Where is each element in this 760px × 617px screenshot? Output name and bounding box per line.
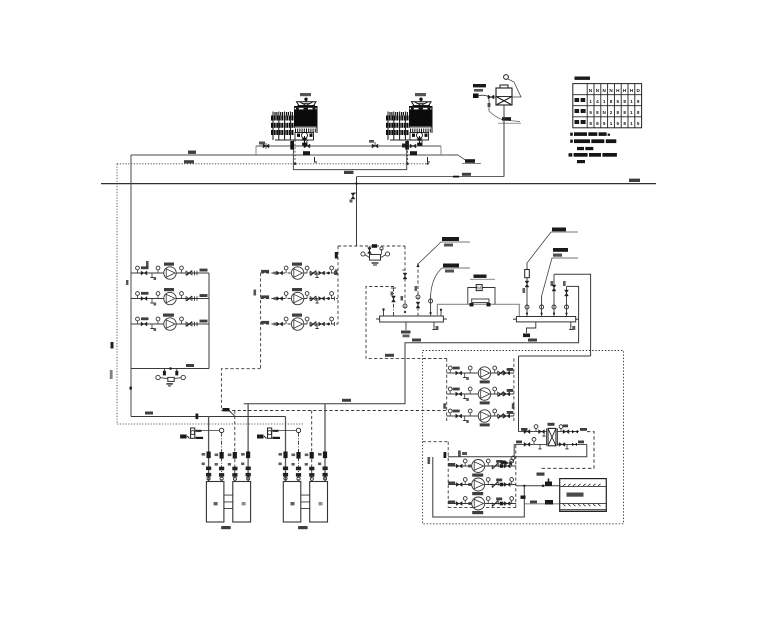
pump labels group1 (163, 263, 174, 317)
pipe: dotted equalizer line (117, 163, 430, 165)
valves right of HX top (559, 425, 587, 434)
pipe: tank lower suction line (524, 500, 559, 505)
svg-text:2: 2 (610, 110, 613, 115)
pump CH-P3 row dashed (261, 317, 338, 330)
svg-text:5: 5 (589, 110, 592, 115)
pipe: cooling supply line to chillers (131, 412, 286, 420)
svg-text:8: 8 (596, 121, 599, 126)
svg-text:8: 8 (589, 121, 592, 126)
label on return line (188, 151, 196, 154)
svg-text:1: 1 (630, 110, 633, 115)
pipe: group2 elbow to chiller chilled line (221, 369, 260, 411)
chiller unit 1 risers (209, 404, 249, 482)
chiller unit 2 risers (286, 404, 326, 482)
notes text lines (569, 132, 617, 163)
left header (supply manifold) (376, 316, 447, 322)
label on chiller supply line (342, 339, 421, 402)
pipe: group2 left dashed vertical (260, 273, 262, 369)
expansion make-up assembly (361, 246, 390, 265)
pipe: dashed chilled line to chillers (221, 410, 446, 412)
strainer bypass assembly (130, 367, 186, 389)
label main line (629, 179, 640, 182)
pump XP-3 row (448, 497, 516, 515)
node ticks group3 (443, 403, 514, 409)
svg-text:1: 1 (610, 121, 613, 126)
pipe: long dotted expansion line (117, 423, 303, 425)
valve on gray line 2 (304, 144, 310, 148)
riser 1 on left header (382, 308, 384, 316)
water treatment unit (softener) (473, 75, 521, 124)
label GGP (521, 473, 545, 499)
svg-text:8: 8 (617, 110, 620, 115)
pipe: HX return U (514, 444, 587, 456)
pump CH-P2 row dashed (261, 292, 338, 305)
pump PB-3 row (131, 317, 209, 331)
pipe: main bottom header line (101, 183, 656, 185)
label on left vertical (110, 342, 114, 379)
right header (return manifold) (513, 317, 579, 322)
pipe: CT-2 overflow dashed drain (407, 140, 409, 163)
right system dotted enclosure (423, 351, 624, 524)
svg-text:8: 8 (623, 121, 626, 126)
riser 3 gauge (401, 296, 404, 301)
heat exchanger HX (547, 423, 558, 446)
label at dashed junction (223, 408, 235, 416)
pipe: tank loop bottom (433, 457, 526, 517)
label on make-up line (462, 173, 471, 176)
riser D on right header (563, 281, 569, 317)
pump labels group2 (292, 263, 302, 317)
gauge on dashed riser (403, 304, 407, 313)
cooling tower CT-1 (271, 93, 317, 150)
valve on gray line 1 (259, 142, 269, 150)
riser 4 on left header with leader to label (415, 237, 471, 316)
pipe: return line to group4 (444, 451, 515, 459)
pipe: tower common bottom U line (293, 140, 406, 170)
pipe: riser C elbow to box supply (554, 274, 591, 356)
pump XP-1 row (448, 459, 516, 477)
differential pressure bypass valve assembly (468, 275, 495, 307)
riser 5 on left header with curved leader (429, 264, 470, 317)
chiller LSB-1 (202, 452, 251, 530)
svg-text:5: 5 (637, 121, 640, 126)
riser B on right header with leader (540, 248, 578, 317)
data table title (575, 77, 591, 80)
hook symbol right (427, 157, 431, 165)
svg-text:4: 4 (596, 99, 599, 104)
pipe: condenser supply gray line (256, 146, 441, 155)
pump XH-P1 row (447, 366, 514, 383)
pump PB-1 row (131, 266, 209, 280)
hook symbol mid (315, 157, 318, 162)
label below U line (344, 171, 354, 174)
svg-text:1: 1 (630, 121, 633, 126)
svg-text:8: 8 (623, 110, 626, 115)
pipe: left solid vertical (130, 155, 132, 417)
svg-text:1: 1 (603, 99, 606, 104)
cooling tower CT-2 (386, 93, 432, 150)
riser A on right header (to box via 590) (523, 228, 579, 317)
pipe: cross-over line between headers (437, 304, 519, 316)
pipe: dashed riser to left header (404, 246, 406, 313)
pipe: condenser return solid line (131, 154, 441, 156)
pipe: dashed chilled-return path left (366, 287, 447, 359)
drain below left header (401, 322, 411, 337)
pipe: left dotted vertical (116, 164, 118, 424)
pump XH-P3 row (447, 409, 514, 426)
valve on gray line 3 (369, 140, 378, 148)
pipe: softener down pipe (503, 105, 505, 177)
svg-text:1: 1 (630, 99, 633, 104)
air vent cluster (501, 456, 515, 465)
valve on dashed riser (402, 270, 407, 279)
valve on gray line 4 (402, 144, 416, 149)
pipe: right header riser D elbow to down line (244, 286, 579, 403)
drain valve right below left header (432, 322, 438, 330)
node tower2 drain junction (406, 163, 408, 165)
pump CH-P1 row dashed (261, 266, 338, 279)
svg-text:8: 8 (596, 110, 599, 115)
svg-text:8: 8 (610, 99, 613, 104)
label on dashed path (385, 354, 394, 357)
pipe: make-up riser to expansion assembly (355, 177, 357, 246)
pump XH-P2 row (447, 387, 514, 404)
pipe: box top supply line (519, 355, 591, 357)
pipe: HX lower line (514, 443, 587, 445)
riser C on right header (551, 274, 557, 316)
data table (573, 84, 642, 128)
pipe: group3 dashed enclosure (423, 358, 514, 421)
label tick in box left (428, 457, 431, 464)
riser 6 on left header (440, 309, 442, 316)
pipe: group2 right dashed vertical (335, 246, 338, 324)
svg-text:9: 9 (637, 99, 640, 104)
label on dotted line (184, 160, 194, 163)
svg-text:8: 8 (637, 110, 640, 115)
label between group2 rows (254, 290, 257, 296)
svg-text:5: 5 (617, 99, 620, 104)
riser 2 on left header (391, 288, 397, 316)
pump XP-2 row (448, 478, 516, 496)
storage tank (560, 479, 607, 512)
instrument chiller 2 (257, 428, 296, 439)
pipe: box left down pipe (518, 356, 520, 432)
pipe: HX top dashed continuation (541, 432, 594, 469)
drain valve right below right header (569, 322, 575, 330)
valve tower1 outlet (303, 151, 310, 155)
svg-text:8: 8 (623, 99, 626, 104)
pipe: make-up water line (357, 176, 505, 178)
svg-text:5: 5 (603, 121, 606, 126)
svg-text:1: 1 (589, 99, 592, 104)
pipe: group4 discharge to tank upper (516, 479, 560, 488)
instrument chiller 1 (180, 428, 219, 439)
svg-text:5: 5 (617, 121, 620, 126)
pump PB-2 row (131, 292, 209, 306)
pipe: CT-1 overflow dashed drain (294, 140, 296, 163)
pipe: group1 bottom line (131, 364, 209, 369)
valve on make-up riser (350, 193, 357, 203)
valve tower2 outlet (410, 151, 417, 155)
node tower1 drain junction (294, 163, 296, 165)
valves on HX top line (521, 425, 546, 436)
valves on HX lower line (516, 438, 584, 449)
svg-text:M: M (477, 286, 481, 291)
node ticks left of group1 (126, 261, 149, 285)
pipe: HX top line (519, 431, 580, 433)
pipe: expansion dashed box top (338, 244, 405, 248)
pipe: group1 right vertical (208, 273, 210, 369)
leader to drain label (441, 146, 481, 164)
drain below right header (523, 322, 537, 342)
pipe: group4 dashed enclosure (423, 442, 516, 508)
chiller LSB-2 (279, 452, 328, 530)
